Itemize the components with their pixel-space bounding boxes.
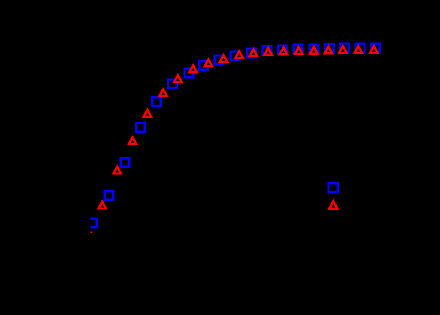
data point: red triangle T7 at (177.9,78.0)	[172, 73, 183, 83]
data point: red triangle T2 at (102.2,204.5)	[97, 199, 108, 209]
data point: red triangle T19 at (358.3,48.9)	[353, 44, 364, 54]
data point: red triangle T5 at (147.4,112.6)	[142, 107, 153, 117]
data point: red triangle T15 at (298.6,49.9)	[293, 45, 304, 55]
data point: red triangle T17 at (328.4,49.3)	[323, 44, 334, 54]
legend marker: red triangle	[327, 199, 339, 210]
data point: blue square S16 at (329.4,48.3)	[325, 44, 334, 53]
data point: red triangle T10 at (223.6,58.0)	[218, 53, 229, 63]
data point: red triangle T8 at (193.1,68.2)	[187, 63, 198, 73]
data point: blue square S18 at (360.2,48.0)	[356, 44, 365, 53]
data point: red triangle T4 at (132.5,140.0)	[127, 135, 138, 145]
data point: blue square S1 at (92.4,223.0)	[88, 219, 97, 228]
data point: blue square S14 at (298.0,49.0)	[294, 45, 303, 54]
data point: blue square S19 at (375.6,48.0)	[371, 44, 380, 53]
data point: red triangle T20 at (373.9,48.9)	[368, 44, 379, 54]
data point: blue square S8 at (203.7,65.5)	[199, 61, 208, 70]
data point: red triangle T9 at (208.4,62.3)	[203, 57, 214, 67]
data point: red triangle T3 at (117.2,169.5)	[112, 164, 123, 174]
data point: blue square S9 at (219.2,59.9)	[215, 56, 224, 65]
data point: red triangle T6 at (163.1,92.0)	[157, 87, 168, 97]
data point: blue square S3 at (125.0,162.4)	[121, 158, 130, 167]
data point: red triangle T18 at (342.9,48.9)	[337, 44, 348, 54]
data point: red triangle T12 at (253.4,52.0)	[248, 47, 259, 57]
data point: red triangle T13 at (268.2,50.8)	[263, 46, 274, 56]
data point: blue square S13 at (282.5,49.7)	[278, 45, 287, 54]
data point: red triangle T16 at (313.8,49.6)	[308, 44, 319, 54]
data point: blue square S11 at (251.4,52.8)	[247, 49, 256, 58]
data point: blue square S15 at (314.0,49.0)	[310, 45, 319, 54]
data point: red triangle T11 at (239.2,54.0)	[234, 49, 245, 59]
data point: blue square S2 at (109.0,195.5)	[105, 191, 114, 200]
data point: blue square S10 at (235.0,55.7)	[231, 51, 240, 60]
data point: blue square S17 at (344.5,47.8)	[340, 44, 349, 53]
data point: blue square S12 at (267.2,50.6)	[263, 46, 272, 55]
data point: blue square S7 at (188.8,73.0)	[185, 69, 194, 78]
legend marker: blue square	[329, 183, 338, 192]
data point: blue square S5 at (156.4,101.6)	[152, 97, 161, 106]
data point: red triangle T14 at (283.6,50.2)	[278, 45, 289, 55]
data point: blue square S4 at (140.4,127.3)	[136, 123, 145, 132]
data point: blue square S6 at (172.3,83.7)	[168, 79, 177, 88]
data point: red triangle T1 at (91.2,236.0)	[86, 231, 97, 241]
